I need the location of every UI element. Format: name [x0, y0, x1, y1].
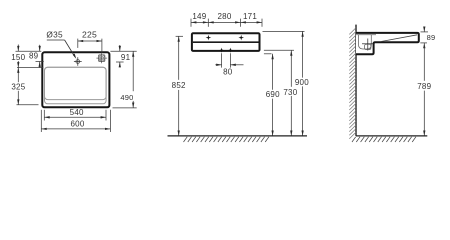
- front view: basin body: [192, 33, 260, 51]
- svg-text:225: 225: [82, 30, 97, 40]
- plan view: overflow grid square: [99, 55, 105, 62]
- side view: drain hub: [365, 44, 371, 49]
- side view: drain crosshair: [367, 39, 369, 51]
- svg-text:325: 325: [11, 83, 25, 92]
- side view: wall hatching: [349, 28, 356, 139]
- plan view: inner bowl ledge line: [45, 67, 107, 104]
- ground hatching (front view): [184, 137, 269, 142]
- plan top edge extension left: [16, 50, 42, 52]
- front view: 900 top tick: [263, 30, 305, 32]
- plan view: overflow crosshair: [101, 53, 103, 63]
- dim 900: [302, 31, 304, 77]
- svg-text:900: 900: [295, 78, 309, 87]
- side view: rim inner edge: [356, 34, 376, 36]
- dim 490 (vertical, right of plan): [132, 51, 134, 91]
- front view: 730 top tick: [264, 49, 294, 51]
- svg-text:690: 690: [266, 90, 280, 99]
- svg-text:171: 171: [243, 12, 257, 21]
- svg-text:80: 80: [223, 67, 233, 76]
- dim 730: [290, 50, 292, 87]
- side view: deck taper line: [381, 35, 417, 42]
- dim 225 (tap hole to overflow): [77, 39, 79, 48]
- svg-text:280: 280: [217, 12, 231, 21]
- ground line (front view): [168, 135, 308, 137]
- plan ledge extension (325 tick): [17, 104, 39, 106]
- svg-text:Ø35: Ø35: [46, 30, 63, 40]
- ground line (side view): [356, 135, 427, 137]
- dim 89 (side view): [423, 27, 425, 32]
- plan view: tap hole circle: [76, 60, 80, 64]
- front view: tap hole markers: [206, 35, 212, 41]
- svg-text:852: 852: [172, 81, 186, 90]
- dim 325 (vertical, left): [17, 68, 19, 83]
- dim chain 149/280/171 (top): [190, 19, 192, 27]
- side view: wall line: [355, 25, 357, 136]
- svg-text:600: 600: [70, 119, 84, 128]
- svg-text:89: 89: [29, 52, 39, 61]
- front view: 690 top tick: [264, 53, 272, 55]
- dim 150 (vertical, left): [17, 45, 19, 52]
- svg-text:490: 490: [120, 93, 133, 102]
- plan view: tap hole crosshair: [77, 57, 79, 66]
- dim 852 (left of front view): [176, 35, 183, 37]
- dim 540 (bottom of plan): [43, 110, 45, 121]
- dim 89 (vertical, left): [39, 45, 41, 52]
- svg-text:149: 149: [192, 12, 206, 21]
- svg-text:91: 91: [121, 53, 131, 62]
- ground hatching (side view): [352, 137, 416, 142]
- dim 789 (side view): [423, 43, 425, 81]
- svg-text:789: 789: [417, 82, 431, 91]
- plan view: basin outer rim 600x490: [42, 52, 109, 107]
- dim 600 (bottom of plan): [40, 110, 42, 132]
- side view: basin profile outline: [356, 33, 419, 54]
- dim 91 (vertical, right of plan): [119, 45, 121, 51]
- side view: deck underside tick (89): [420, 42, 427, 44]
- plan view: overflow grid holes: [99, 56, 101, 58]
- front view: rim line: [193, 41, 259, 43]
- svg-text:730: 730: [283, 88, 297, 97]
- dim 80 (fixing holes): [221, 53, 223, 67]
- svg-text:540: 540: [70, 108, 84, 117]
- plan view: inner bowl rim: [45, 67, 107, 99]
- side view: bowl inner profile: [358, 35, 371, 49]
- plan inner-top extension (150 tick): [17, 67, 43, 69]
- svg-text:89: 89: [427, 33, 436, 42]
- dim 690: [272, 54, 274, 90]
- plan tap-hole-center tick (89 dim): [36, 61, 44, 63]
- plan top edge extension right: [110, 50, 136, 52]
- side view: top edge extension (89 tick): [421, 31, 429, 33]
- front view: fixing bolt markers: [219, 48, 224, 53]
- svg-text:150: 150: [11, 53, 25, 62]
